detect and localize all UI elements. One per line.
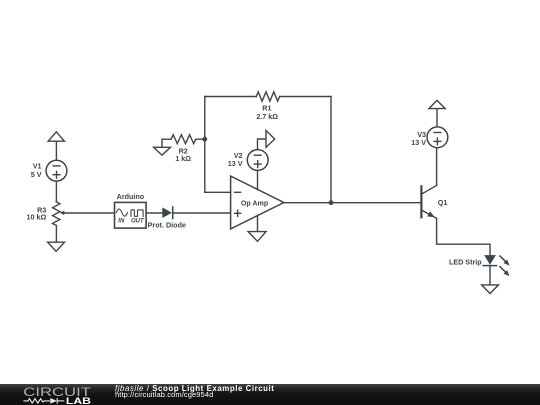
wire V2 bottom to op-amp positive supply bbox=[257, 170, 259, 189]
svg-text:2.7 kΩ: 2.7 kΩ bbox=[256, 112, 278, 121]
power flag VCC1 above V1 bbox=[48, 132, 64, 141]
svg-text:OUT: OUT bbox=[131, 219, 145, 225]
svg-text:IN: IN bbox=[118, 219, 125, 225]
wire V2 top to flag bbox=[258, 139, 267, 150]
ground below op-amp bbox=[248, 232, 266, 242]
wire feedback right vertical bbox=[330, 97, 332, 203]
voltage source V3 bbox=[427, 127, 448, 148]
wire R2 right to feedback node bbox=[196, 138, 205, 140]
ground at R2 bbox=[154, 147, 171, 155]
wire Q1 emitter to LED bbox=[437, 218, 490, 255]
svg-text:Q1: Q1 bbox=[438, 198, 448, 207]
CircuitLab logo diode bbox=[50, 398, 64, 404]
svg-text:Prot. Diode: Prot. Diode bbox=[148, 220, 186, 229]
power flag above V2 bbox=[266, 130, 275, 147]
wire diode to op-amp noninverting input bbox=[173, 212, 230, 214]
junction dot R2 feedback node bbox=[202, 137, 207, 142]
svg-text:Arduino: Arduino bbox=[117, 192, 145, 201]
wire VCC1 to V1 top bbox=[55, 141, 57, 160]
ground below LED bbox=[482, 285, 499, 294]
wire feedback top right bbox=[280, 96, 331, 98]
wire feedback top left bbox=[205, 96, 256, 98]
wire feedback left vertical bbox=[204, 97, 206, 193]
footer bar bbox=[0, 384, 540, 405]
svg-text:10 kΩ: 10 kΩ bbox=[27, 212, 47, 221]
wire V3 bottom to Q1 collector bbox=[436, 148, 438, 186]
resistor R2 bbox=[171, 135, 196, 144]
wire R3 wiper to Arduino box bbox=[64, 212, 115, 214]
LED strip diode bbox=[483, 254, 511, 278]
voltage source V1 bbox=[46, 160, 67, 181]
svg-text:13 V: 13 V bbox=[411, 138, 426, 147]
svg-text:http://circuitlab.com/cge954d: http://circuitlab.com/cge954d bbox=[115, 390, 213, 399]
ground below R3 bbox=[48, 242, 65, 251]
transistor Q1 bbox=[421, 185, 436, 219]
svg-text:LAB: LAB bbox=[66, 395, 91, 405]
wire R3 bottom to ground bbox=[55, 225, 57, 242]
svg-text:1 kΩ: 1 kΩ bbox=[175, 154, 191, 163]
CircuitLab logo resistor zigzag bbox=[23, 399, 50, 403]
svg-text:Op Amp: Op Amp bbox=[241, 200, 269, 208]
Arduino block bbox=[115, 202, 147, 228]
svg-text:13 V: 13 V bbox=[228, 159, 243, 168]
svg-text:5 V: 5 V bbox=[31, 170, 42, 179]
resistor R1 bbox=[256, 92, 279, 101]
wire VCC3 to V3 top bbox=[436, 109, 438, 128]
wire op-amp negative supply to ground bbox=[257, 216, 259, 232]
wire R2 left to ground bbox=[162, 139, 171, 147]
potentiometer R3 bbox=[53, 202, 65, 226]
junction dot feedback tap on output wire bbox=[329, 200, 334, 205]
wire op-amp inverting input stub bbox=[205, 191, 231, 193]
power flag VCC3 above V3 bbox=[429, 100, 445, 108]
wire op-amp output to Q1 base bbox=[284, 202, 421, 204]
op-amp U1 bbox=[231, 176, 284, 229]
wire V1 bottom to R3 top bbox=[55, 181, 57, 202]
wire Arduino to diode bbox=[146, 212, 162, 214]
voltage source V2 bbox=[247, 150, 268, 171]
svg-text:LED Strip: LED Strip bbox=[449, 258, 482, 267]
wire LED to ground bbox=[489, 266, 491, 285]
protection diode D1 bbox=[162, 207, 172, 219]
